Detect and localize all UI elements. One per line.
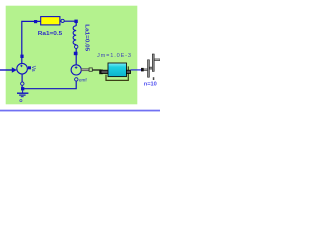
- emf U circle: [71, 65, 81, 75]
- gear lower stub: [153, 77, 155, 80]
- wire: inertia to gear: [131, 69, 142, 71]
- svg-text:emf: emf: [79, 77, 87, 82]
- inertia bracket: [106, 66, 128, 80]
- gear flange_a square: [141, 68, 144, 72]
- wire: emf flange to inertia: [92, 69, 101, 71]
- svg-text:n=10: n=10: [144, 82, 157, 88]
- wire: inductor bottom to emf top: [75, 48, 77, 65]
- gear wheel 1: [148, 60, 150, 77]
- gear right shaft: [154, 59, 160, 61]
- diagram background: [0, 0, 160, 120]
- wire: emf bottom to ground: [22, 81, 76, 89]
- node: emf p pin square: [74, 52, 78, 56]
- inertia right shaft: [126, 70, 130, 73]
- wire: resistor to inductor top corner: [60, 21, 76, 26]
- node: source p pin square: [20, 55, 23, 58]
- node: emf flange square: [89, 68, 92, 71]
- resistor R (Ra1): [41, 17, 60, 25]
- inertia left shaft: [101, 70, 108, 73]
- node: inductor p pin square (top-right corner junction): [74, 20, 77, 23]
- wire: source top to resistor: [22, 21, 41, 63]
- emf shaft (flange): [81, 69, 89, 71]
- inertia flange_a square: [99, 70, 103, 75]
- ground symbol: [22, 90, 24, 92]
- node: resistor p pin square: [34, 20, 37, 23]
- node: source n pin circle: [21, 82, 24, 85]
- node: emf n pin circle: [75, 78, 78, 81]
- gear mid shaft: [150, 67, 153, 69]
- separator line: [0, 108, 160, 111]
- node: resistor n pin circle: [61, 19, 64, 22]
- signal input arrow: [0, 69, 12, 71]
- node: inductor n pin circle: [75, 45, 78, 48]
- voltage source plus sign: [20, 65, 22, 67]
- svg-text:Jm=1.0E-3: Jm=1.0E-3: [97, 53, 131, 59]
- node: source v square: [28, 66, 31, 69]
- gear left shaft: [144, 69, 148, 71]
- gear wheel 2: [152, 54, 154, 71]
- svg-text:Ra1=0.5: Ra1=0.5: [38, 31, 63, 37]
- wire: source bottom: [21, 74, 23, 87]
- inertia body Jm: [108, 63, 127, 77]
- emf plus sign: [75, 66, 78, 69]
- svg-text:Va: Va: [30, 66, 36, 72]
- svg-text:La1=0.05: La1=0.05: [83, 24, 89, 52]
- voltage source Va circle: [17, 63, 28, 74]
- ground name mark: [20, 100, 22, 102]
- ground junction square: [21, 87, 24, 90]
- inductor L (La1) coil: [73, 26, 76, 45]
